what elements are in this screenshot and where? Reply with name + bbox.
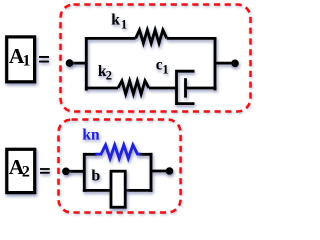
right junction [150, 153, 153, 192]
right terminal node [166, 167, 174, 175]
right terminal wire [215, 62, 235, 65]
component labels A2 [82, 126, 100, 184]
right terminal node [231, 60, 239, 68]
svg-text:1: 1 [23, 52, 31, 69]
spring k1 [136, 30, 167, 43]
svg-text:kn: kn [82, 126, 100, 143]
svg-text:2: 2 [22, 164, 30, 181]
dashed boundary box (model A1) [61, 5, 251, 112]
damper c1 piston [184, 78, 187, 97]
wire bottom branch left [85, 87, 118, 90]
left junction [85, 37, 88, 91]
dashed boundary box (model A2) [59, 120, 181, 213]
left terminal wire [68, 62, 86, 65]
left terminal node [62, 168, 70, 176]
wire top branch left [85, 37, 136, 40]
top branch left stub [83, 153, 97, 156]
svg-text:1: 1 [121, 17, 127, 31]
circuit A2 [65, 153, 170, 192]
right junction [214, 37, 217, 90]
svg-text:2: 2 [106, 69, 112, 83]
damper rod [186, 87, 217, 90]
component labels A1 [98, 11, 169, 82]
label box A2 [7, 149, 50, 192]
left terminal node [66, 59, 74, 67]
spring k2 [118, 81, 149, 94]
label box A1 [7, 37, 49, 82]
circuit A1 [68, 30, 235, 104]
top branch right stub [139, 153, 152, 156]
damper c1 cylinder [177, 71, 195, 103]
left junction [83, 153, 86, 192]
wire top branch right [167, 37, 217, 40]
wire to damper [149, 87, 178, 90]
left terminal wire [65, 170, 85, 173]
right terminal wire [151, 170, 170, 173]
svg-text:1: 1 [162, 62, 168, 76]
bottom branch [83, 189, 152, 192]
spring kn (blue) [96, 145, 141, 159]
svg-text:k: k [111, 11, 120, 28]
damper b body [111, 171, 125, 207]
svg-text:b: b [91, 168, 100, 185]
